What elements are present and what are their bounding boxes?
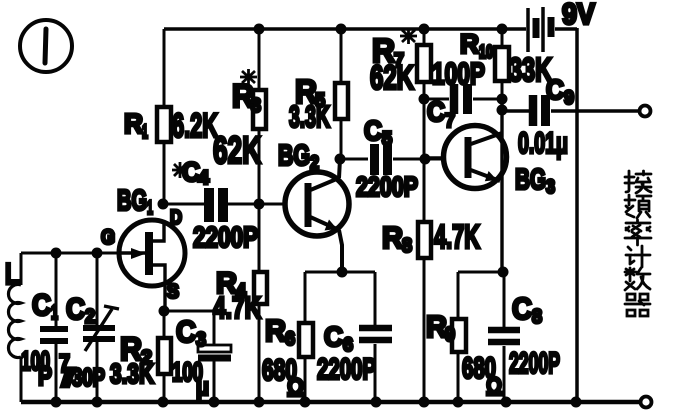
- resistor R1: [124, 29, 218, 204]
- resistor R6: [262, 272, 313, 402]
- node: C8 bottom: [501, 397, 512, 408]
- svg-text:R: R: [426, 309, 447, 344]
- transistor BG3: [444, 126, 556, 199]
- resistor R9: [426, 272, 502, 402]
- svg-text:2: 2: [310, 153, 319, 174]
- svg-text:R: R: [382, 220, 403, 255]
- label: 接频率计数器 (connect to frequency counter): [625, 171, 651, 316]
- wire: BG3 emitter network top: [458, 271, 503, 274]
- resistor R8: [382, 159, 480, 402]
- svg-text:R: R: [265, 313, 286, 348]
- resistor R4: [213, 204, 267, 402]
- svg-text:9: 9: [564, 88, 574, 109]
- node: BG2 collector junction: [335, 154, 346, 165]
- svg-text:BG: BG: [278, 140, 310, 172]
- node: C6 bottom: [371, 397, 382, 408]
- title circled 1: [20, 20, 72, 72]
- char 接: [625, 171, 651, 193]
- char 数: [625, 268, 650, 290]
- svg-text:2200P: 2200P: [317, 353, 376, 386]
- resistor R2: [110, 311, 171, 402]
- resistor R3: [213, 29, 266, 204]
- svg-text:C: C: [32, 289, 51, 322]
- svg-text:3.3K: 3.3K: [110, 358, 154, 389]
- svg-text:8: 8: [402, 235, 412, 257]
- trimmer capacitor C2: [59, 253, 119, 402]
- node: C1 top junction: [51, 248, 62, 259]
- wire: R7/R8 line to BG3 base node: [423, 99, 426, 159]
- node: C2 bottom junction: [92, 397, 103, 408]
- svg-text:9: 9: [445, 324, 455, 346]
- node: C1 bottom junction: [51, 397, 62, 408]
- svg-text:G: G: [101, 226, 115, 249]
- battery B1 9V: [528, 0, 595, 52]
- svg-text:2: 2: [85, 306, 95, 328]
- svg-text:D: D: [170, 207, 182, 229]
- svg-text:7: 7: [445, 111, 455, 132]
- svg-text:4: 4: [198, 168, 209, 189]
- resistor R10: [460, 29, 552, 99]
- svg-text:2200P: 2200P: [509, 347, 560, 380]
- svg-text:3: 3: [546, 177, 555, 198]
- capacitor C1: [21, 253, 68, 402]
- svg-text:L: L: [5, 258, 19, 291]
- node: BG1 source junction: [159, 306, 170, 317]
- svg-text:4.7K: 4.7K: [434, 218, 480, 255]
- svg-text:3.3K: 3.3K: [289, 99, 330, 134]
- capacitor C8: [488, 272, 560, 402]
- svg-text:2200P: 2200P: [356, 171, 418, 202]
- svg-text:1: 1: [51, 302, 58, 324]
- svg-text:C: C: [546, 74, 564, 105]
- svg-text:30P: 30P: [72, 364, 105, 392]
- node: C2 top junction: [92, 248, 103, 259]
- svg-text:100P: 100P: [432, 56, 485, 91]
- output terminal (to frequency counter): [640, 106, 651, 117]
- inductor L: [5, 253, 21, 402]
- svg-text:R: R: [124, 108, 143, 139]
- FET BG1: [101, 185, 185, 311]
- node: R8 bottom: [419, 397, 430, 408]
- svg-text:4.7K: 4.7K: [213, 290, 261, 325]
- svg-text:6: 6: [285, 329, 295, 350]
- node: top rail / R5 junction: [336, 24, 347, 35]
- wire: tank circuit top (gate node): [21, 252, 119, 255]
- capacitor C5: [340, 115, 444, 202]
- transistor BG2: [278, 140, 349, 272]
- char 频: [625, 195, 651, 218]
- bottom ground rail: [21, 400, 640, 405]
- node: R9 bottom: [453, 397, 464, 408]
- svg-text:R: R: [460, 29, 479, 59]
- svg-text:C: C: [324, 321, 343, 352]
- svg-text:C: C: [512, 291, 532, 326]
- svg-text:μ: μ: [196, 374, 209, 401]
- svg-text:10: 10: [479, 42, 493, 62]
- node: top rail / R3 junction: [254, 24, 265, 35]
- svg-text:9V: 9V: [562, 0, 595, 31]
- wire: base of BG3: [425, 156, 444, 159]
- svg-text:C: C: [427, 96, 445, 127]
- wire: battery positive down to ground rail: [575, 28, 579, 402]
- wire: BG2 emitter network top: [305, 271, 375, 274]
- svg-text:5: 5: [382, 129, 392, 150]
- node: R10 bottom / C7 right junction: [497, 94, 508, 105]
- node: battery drop / ground rail junction: [571, 397, 582, 408]
- node: top rail / R10 / battery junction: [497, 24, 508, 35]
- svg-text:BG: BG: [515, 164, 546, 196]
- svg-text:C: C: [176, 314, 196, 349]
- svg-text:C: C: [66, 293, 85, 326]
- svg-text:C: C: [364, 115, 382, 146]
- svg-text:S: S: [167, 281, 179, 303]
- node: R6 bottom: [300, 397, 311, 408]
- char 器: [625, 294, 650, 316]
- resistor R7: [370, 28, 431, 99]
- resistor R5: [289, 29, 348, 159]
- char 率: [625, 220, 651, 245]
- wire: BG3 collector down past circle to emitter line: [500, 99, 503, 272]
- svg-text:2200P: 2200P: [193, 222, 258, 254]
- capacitor C9: [502, 74, 639, 160]
- capacitor C4: [164, 157, 285, 254]
- node: C3 bottom: [209, 397, 220, 408]
- wire: source to C3: [164, 311, 214, 344]
- svg-text:62K: 62K: [370, 59, 414, 97]
- svg-text:62K: 62K: [213, 130, 261, 172]
- svg-text:1: 1: [142, 122, 148, 143]
- capacitor C7: [424, 56, 502, 132]
- node: BG2 emitter junction: [337, 267, 348, 278]
- svg-text:P: P: [38, 361, 52, 391]
- svg-text:8: 8: [532, 306, 542, 328]
- electrolytic capacitor C3: [172, 314, 231, 402]
- svg-text:BG: BG: [117, 185, 147, 217]
- svg-text:3: 3: [196, 329, 206, 351]
- svg-text:3: 3: [251, 95, 261, 117]
- node: R7 bottom / C7 left junction: [419, 94, 430, 105]
- node: BG3 emitter junction: [498, 267, 509, 278]
- node: BG1 drain junction: [158, 199, 169, 210]
- node: top rail / R7 junction: [419, 24, 430, 35]
- svg-text:6.2K: 6.2K: [172, 107, 218, 145]
- node: BG3 collector / C9 junction: [497, 105, 508, 116]
- node: BG3 base junction: [420, 154, 431, 165]
- char 计: [626, 246, 650, 267]
- svg-text:0.01μ: 0.01μ: [518, 127, 568, 160]
- capacitor C6: [317, 272, 392, 402]
- node: R4 bottom: [254, 397, 265, 408]
- top power rail: [164, 27, 577, 31]
- ground-side output terminal: [641, 397, 652, 408]
- svg-text:1: 1: [147, 198, 153, 219]
- svg-text:Ω: Ω: [486, 373, 502, 401]
- node: C4 / R3 / R4 / BG2 base junction: [254, 199, 265, 210]
- node: R2 bottom: [158, 397, 169, 408]
